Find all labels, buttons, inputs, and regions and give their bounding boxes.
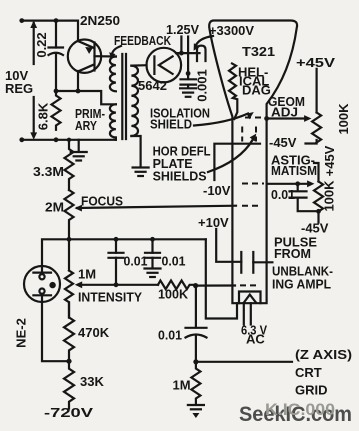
svg-text:0.01: 0.01 (271, 187, 295, 202)
node geom wiper at shield (264, 116, 269, 121)
label 6.3V AC (241, 323, 267, 347)
electrode unblanking plate right (252, 252, 254, 273)
label T321 (242, 44, 275, 59)
CRT V2 T321 envelope funnel and neck (209, 21, 297, 304)
svg-text:DAG: DAG (242, 83, 271, 98)
label -45V (geom) (269, 135, 297, 150)
svg-text:0.01: 0.01 (158, 328, 182, 343)
node second 0.01 top (150, 237, 155, 242)
label 0.01 (bottom) (158, 328, 182, 343)
node 0.22 top junction (54, 18, 59, 23)
svg-text:(Z AXIS): (Z AXIS) (295, 347, 352, 362)
wire cathode lead from 100K junction (196, 284, 235, 286)
label 0.22 (rotated) (34, 32, 49, 57)
annotation +3300V pointer arrow (194, 36, 213, 51)
svg-text:FEEDBACK: FEEDBACK (114, 33, 171, 48)
label PRIM-ARY (75, 106, 105, 133)
label 10V REG (5, 68, 33, 96)
svg-text:33K: 33K (80, 374, 104, 389)
svg-text:0.22: 0.22 (34, 32, 49, 57)
node crt grid junction (193, 359, 198, 364)
wire focus electrode lead (77, 206, 236, 208)
capacitor 0.01 astig (290, 184, 319, 211)
resistor 3.3M (65, 140, 74, 190)
label 0.01 (first) (124, 254, 148, 269)
svg-text:2N250: 2N250 (80, 13, 120, 28)
svg-text:REG: REG (5, 81, 33, 96)
ground 0.001 ground (180, 88, 196, 97)
label 1.25V (166, 22, 199, 37)
svg-text:3.3M: 3.3M (33, 164, 64, 179)
heater filament (244, 295, 256, 303)
label 470K (78, 325, 110, 340)
wire bias network top rail (69, 238, 206, 240)
transformer T1 secondary winding (131, 66, 138, 136)
wire geom adj wiper (267, 115, 312, 122)
svg-text:0.01: 0.01 (162, 254, 186, 269)
svg-text:+10V: +10V (198, 215, 229, 230)
label (Z AXIS) CRT GRID (295, 347, 352, 398)
svg-text:-720V: -720V (44, 405, 93, 420)
label 5642 (138, 78, 167, 93)
label 2N250 (80, 13, 120, 28)
svg-text:MATISM: MATISM (271, 163, 317, 178)
svg-text:-45V: -45V (269, 135, 297, 150)
electrode hor defl plates (dashed) (242, 127, 256, 142)
svg-text:2M: 2M (45, 200, 64, 215)
label +45V (astig, rotated) (322, 145, 337, 176)
label -720V (44, 405, 93, 420)
transformer T1 primary winding (110, 104, 116, 137)
svg-text:NE-2: NE-2 (13, 318, 28, 348)
lamp NE-2 (24, 266, 60, 302)
resistor 33K (64, 361, 74, 408)
label HOR DEFL PLATE SHIELDS (153, 144, 211, 184)
wire +10V lead to grid plate (216, 229, 241, 262)
wire chain junction to 1M pot (68, 239, 70, 270)
svg-text:AC: AC (246, 332, 265, 347)
wire crt grid lead (196, 361, 292, 363)
label 0.01 (second) (162, 254, 186, 269)
label 100K (horizontal) (158, 287, 189, 302)
wire heater leads (244, 303, 251, 324)
node collector junction (76, 89, 81, 94)
node intensity chain junction (67, 237, 72, 242)
capacitor 0.01 second (145, 239, 160, 267)
node 3.3M top at rail (67, 138, 71, 142)
svg-text:+3300V: +3300V (209, 23, 254, 38)
wire NE-2 bottom lead (42, 302, 69, 361)
label 3.3M (33, 164, 64, 179)
annotation feedback pointer arrow (109, 46, 121, 60)
resistor 100K horizontal (158, 281, 196, 290)
label 6.8K (rotated) (35, 102, 50, 130)
wire astig wiper (267, 180, 315, 187)
node 6.8K bottom junction (54, 137, 59, 142)
svg-text:+45V: +45V (322, 145, 337, 176)
ground 1M ground (188, 405, 204, 418)
annotation focus wiper arrow (75, 205, 82, 212)
electrode focus (dashed) (242, 205, 262, 207)
annotation hor defl shields pointer arrow (208, 134, 256, 172)
svg-text:1M: 1M (78, 267, 96, 282)
node bottom rail left end (19, 137, 24, 142)
potentiometer geom 100K (306, 69, 322, 144)
ground second 0.01 ground (145, 269, 161, 278)
svg-text:INTENSITY: INTENSITY (78, 290, 142, 305)
label 2M (45, 200, 64, 215)
resistor helical dag (229, 64, 237, 120)
label PULSE FROM UNBLANK-ING AMPL (272, 235, 333, 292)
label -10V (203, 183, 231, 198)
resistor 6.8K (52, 91, 61, 130)
label HEL-ICAL DAG (238, 65, 271, 98)
node top rail left end (19, 18, 24, 23)
svg-text:FOCUS: FOCUS (81, 194, 123, 209)
wire 5642 filament lead right (187, 37, 189, 74)
svg-text:1M: 1M (173, 378, 191, 393)
label ISOLATION SHIELD (150, 105, 210, 131)
svg-text:CRT: CRT (295, 365, 322, 380)
wire secondary bottom lead to ground (131, 136, 140, 166)
svg-text:1.25V: 1.25V (166, 22, 199, 37)
annotation intensity wiper arrow (75, 281, 158, 288)
wire collector node to primary (56, 91, 116, 104)
ground rail ground (71, 140, 87, 161)
label NE-2 (rotated) (13, 318, 28, 348)
svg-text:100K: 100K (336, 103, 351, 135)
svg-text:SHIELDS: SHIELDS (153, 169, 207, 184)
label -45V (astig) (301, 221, 329, 236)
wire -10V stub to defl shields (214, 144, 260, 180)
node 0.001 junction (186, 71, 191, 76)
transformer T1 core (122, 54, 126, 139)
node 470K NE-2 junction (66, 359, 71, 364)
wire unblanking pulse lead (253, 261, 272, 263)
svg-text:GRID: GRID (295, 383, 328, 398)
electrode cathode (dashed) (240, 284, 260, 286)
transistor Q1 2N250 (68, 40, 116, 92)
tube V1 5642 (147, 48, 182, 83)
svg-text:5642: 5642 (138, 78, 167, 93)
label 0.001 (rotated) (194, 69, 209, 102)
wire 5642 filament lead left (180, 37, 182, 54)
heater enclosure box (239, 292, 261, 304)
svg-text:-10V: -10V (203, 183, 231, 198)
wire cathode-return to intensity network (206, 239, 237, 318)
node filament HV junction (179, 51, 184, 56)
svg-text:470K: 470K (78, 325, 110, 340)
svg-text:0.01: 0.01 (124, 254, 148, 269)
node base bias junction (54, 89, 59, 94)
label +10V (198, 215, 229, 230)
node astig cap junction (295, 181, 300, 186)
svg-text:K.IC.000: K.IC.000 (265, 400, 335, 419)
ground secondary shield ground (133, 168, 149, 177)
node first 0.01 top (114, 237, 119, 242)
svg-text:100K: 100K (158, 287, 189, 302)
connector CRT anode clip (197, 46, 206, 61)
svg-text:ARY: ARY (75, 118, 97, 133)
label +3300V (209, 23, 254, 38)
electrode astigmatism (dashed into neck) (242, 183, 264, 185)
capacitor 0.22 (49, 21, 64, 91)
label 1M (bottom) (173, 378, 191, 393)
svg-text:SHIELD: SHIELD (150, 116, 192, 131)
label +45V (geom) (296, 55, 335, 70)
label GEOM ADJ (268, 94, 305, 120)
potentiometer astig 100K (314, 163, 323, 223)
svg-text:ADJ: ADJ (271, 105, 298, 120)
label ASTIG-MATISM (271, 153, 317, 179)
svg-text:6.8K: 6.8K (35, 102, 50, 130)
label 1M (pot) (78, 267, 96, 282)
label FEEDBACK (114, 33, 171, 48)
node 100K output junction (193, 283, 198, 288)
node first 0.01 bottom (114, 282, 119, 287)
wire bottom supply rail (22, 138, 116, 140)
svg-text:100K: 100K (321, 180, 336, 212)
svg-text:0.001: 0.001 (194, 69, 209, 102)
transformer T1 feedback winding (110, 57, 116, 92)
potentiometer 1M intensity (65, 271, 73, 318)
svg-text:ING AMPL: ING AMPL (272, 277, 331, 292)
label 100K (geom, rotated) (336, 103, 351, 135)
wire top supply rail (22, 21, 78, 41)
wire secondary top lead (131, 64, 146, 67)
svg-text:-45V: -45V (301, 221, 329, 236)
annotation isolation shield pointer arrow (194, 112, 254, 126)
label INTENSITY (78, 290, 142, 305)
capacitor 0.01 bottom (186, 286, 207, 362)
watermark SeekIC.com (239, 400, 352, 426)
node astig pot bottom junction (316, 209, 321, 214)
capacitor 0.01 first (109, 239, 124, 284)
capacitor 0.001 (181, 73, 197, 87)
resistor 1M bottom (191, 362, 200, 405)
resistor 470K (64, 302, 74, 361)
label 33K (80, 374, 104, 389)
potentiometer 2M focus (65, 190, 74, 236)
wire +3300V HV lead (176, 52, 200, 54)
label FOCUS (81, 194, 123, 209)
electrode isolation shield (dashed) (245, 117, 263, 119)
annotation 10V REG measurement arrows (30, 21, 37, 140)
svg-text:T321: T321 (242, 44, 275, 59)
wire NE-2 top lead (42, 239, 69, 266)
label 100K (astig, rotated) (321, 180, 336, 212)
label 0.01 (astig) (271, 187, 295, 202)
electrode unblanking plate left (240, 252, 242, 273)
svg-text:FROM: FROM (274, 246, 311, 261)
